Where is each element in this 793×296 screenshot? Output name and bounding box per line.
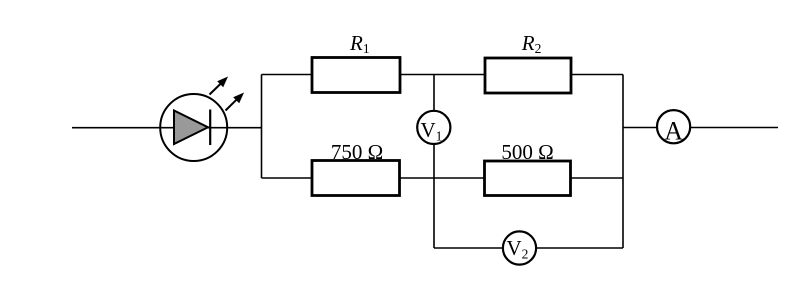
svg-text:500 Ω: 500 Ω — [501, 140, 553, 164]
svg-text:A: A — [664, 116, 683, 145]
svg-text:750 Ω: 750 Ω — [331, 140, 383, 164]
